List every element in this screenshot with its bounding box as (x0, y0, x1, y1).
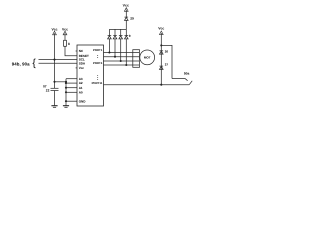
motor circle MOT (140, 50, 155, 65)
svg-text:SDA: SDA (79, 61, 86, 65)
svg-text:27: 27 (165, 63, 169, 67)
wire pin A1 (66, 87, 77, 89)
svg-text:PORT11: PORT11 (92, 81, 103, 85)
ground (under capacitor) (51, 105, 57, 107)
diode D2 (113, 29, 117, 56)
junction D4-phase4 (125, 64, 127, 66)
switch 50a arm (189, 81, 192, 85)
capacitor 22 (51, 87, 59, 89)
svg-text:Vcc: Vcc (123, 4, 129, 8)
diode array top bus (109, 28, 126, 30)
svg-text:A3: A3 (79, 77, 83, 81)
svg-text:A2: A2 (79, 81, 83, 85)
junction right rail branch (160, 44, 162, 46)
svg-text:26: 26 (165, 49, 169, 53)
wire bus line 90b (SDA) (39, 62, 78, 64)
diode D4 (125, 29, 129, 65)
wire phase 3 (104, 60, 140, 62)
power arrow (top) (124, 8, 128, 12)
svg-text:PORT1: PORT1 (93, 48, 103, 52)
wire to resistor (64, 33, 66, 40)
wire phase 4 (104, 64, 140, 66)
wire link rail to A-bus (55, 81, 67, 83)
wire A-bus vertical (65, 79, 67, 106)
svg-text:Vcc: Vcc (79, 66, 85, 70)
diode 27 (160, 66, 164, 69)
wire phase 2 (104, 56, 140, 58)
svg-text:8: 8 (68, 42, 70, 46)
ground (under A-bus) (63, 105, 69, 107)
svg-text:MOT: MOT (144, 56, 151, 60)
junction A-bus link (65, 81, 67, 83)
power arrow (left supply 1) (53, 31, 57, 35)
wire Vcc rail (54, 33, 56, 88)
svg-text:22: 22 (46, 88, 50, 92)
wire phase 1 (104, 52, 140, 54)
junction A-bus A1 (65, 87, 67, 89)
svg-text:GND: GND (79, 99, 87, 103)
svg-text:PORT4: PORT4 (93, 61, 103, 65)
diode D3 (119, 29, 123, 61)
svg-text:94b, 90a: 94b, 90a (12, 61, 30, 66)
svg-text:{: { (32, 58, 36, 69)
switch 50a top contact (172, 79, 188, 81)
dots between ports (96, 54, 99, 57)
svg-text:A1: A1 (79, 86, 83, 90)
wire pin A2 (66, 82, 77, 84)
diode 29 (125, 17, 129, 29)
wire cap to ground (54, 91, 56, 106)
svg-text:A0: A0 (79, 90, 83, 94)
pin stub Vcc (76, 67, 77, 69)
wire pin A0 (66, 91, 77, 93)
svg-text:50a: 50a (184, 71, 190, 75)
svg-text:Vcc: Vcc (158, 27, 164, 31)
wire branch to switch (161, 45, 172, 78)
dots above PORT11 (96, 74, 99, 77)
junction A-bus GND (65, 100, 67, 102)
wire resistor to RESET pin (65, 46, 77, 55)
IC U1 (port expander) (77, 45, 104, 106)
wire pin A3 (66, 78, 77, 80)
wire pin GND (66, 100, 77, 102)
svg-text:29: 29 (130, 16, 134, 20)
diode D1 (108, 29, 112, 52)
power arrow (right) (159, 31, 163, 35)
pin stub NC (76, 50, 77, 52)
diode 26 (160, 51, 164, 54)
junction D2-phase2 (114, 56, 116, 58)
wire right rail (160, 33, 162, 85)
junction rail-link (53, 81, 55, 83)
junction A-bus A0 (65, 91, 67, 93)
junction D1-phase1 (108, 51, 110, 53)
junction rail-SCL (53, 59, 55, 61)
motor connector block (133, 50, 140, 68)
resistor 8 (pull-up) (64, 40, 67, 46)
junction bottom wire (160, 84, 162, 86)
power arrow (left supply 2) (63, 31, 67, 35)
junction D3-phase3 (120, 60, 122, 62)
wire PORT11 / bottom (104, 84, 190, 86)
svg-text:9: 9 (129, 34, 131, 38)
junction A-bus A2 (65, 82, 67, 84)
wire arrow to D29 (125, 10, 127, 17)
wire bus line 90a (SCL) (39, 59, 78, 61)
